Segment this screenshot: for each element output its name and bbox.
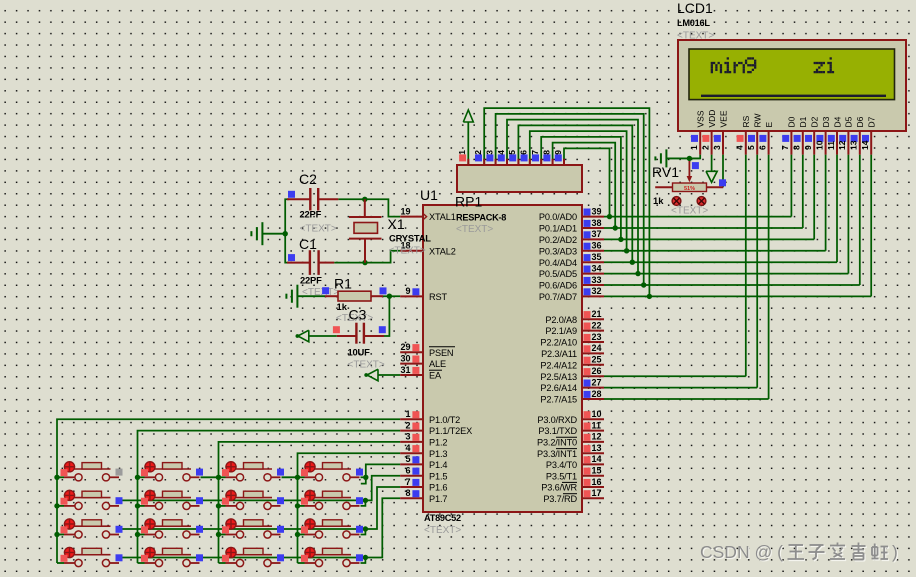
svg-text:EA: EA bbox=[429, 371, 442, 381]
node junction P0.5 bus bbox=[635, 271, 640, 276]
pin 10 LCD1 D3 bbox=[814, 116, 831, 154]
pin 17 U1 right bbox=[582, 497, 604, 499]
pin 6 RP1 bbox=[529, 159, 531, 166]
wire C3 left to power arrow bbox=[309, 335, 337, 337]
svg-text:P1.4: P1.4 bbox=[429, 460, 447, 470]
svg-text:LCD1: LCD1 bbox=[677, 0, 713, 16]
svg-text:XTAL2: XTAL2 bbox=[429, 246, 456, 256]
svg-text:VSS: VSS bbox=[696, 110, 706, 127]
node junction RV1 wiper / VSS net bbox=[687, 156, 692, 161]
svg-text:AT89C52: AT89C52 bbox=[424, 513, 461, 523]
pin 15 U1 right bbox=[582, 475, 604, 477]
pin 3 LCD1 VEE bbox=[712, 110, 729, 154]
svg-text:11: 11 bbox=[592, 420, 602, 430]
svg-text:P3.5/T1: P3.5/T1 bbox=[546, 471, 577, 481]
button keypad row1 col2 bbox=[138, 461, 204, 481]
pin 12 LCD1 D5 bbox=[837, 116, 854, 154]
svg-text:22: 22 bbox=[592, 320, 602, 330]
node keypad junction bbox=[295, 503, 300, 508]
svg-text:31: 31 bbox=[400, 365, 410, 375]
button keypad row3 col1 bbox=[57, 518, 123, 538]
node keypad junction bbox=[216, 532, 221, 537]
svg-text:<TEXT>: <TEXT> bbox=[389, 246, 426, 257]
wire keypad row 3 bus bbox=[117, 528, 365, 530]
svg-text:36: 36 bbox=[592, 241, 602, 251]
pin 4 U1 left bbox=[400, 452, 423, 454]
button keypad row1 col4 bbox=[298, 461, 364, 481]
pin 2 LCD1 VDD bbox=[700, 110, 717, 155]
wire P0.5 to LCD D5 bbox=[604, 273, 848, 275]
wire P0.6 to LCD D6 bbox=[604, 284, 860, 286]
pin 34 U1 right bbox=[582, 273, 604, 275]
node junction crystal bottom / C1 bbox=[362, 260, 367, 265]
pin 10 U1 right bbox=[582, 418, 604, 420]
svg-text:4: 4 bbox=[405, 443, 410, 453]
wire keypad row1 col3 to col4 bbox=[282, 476, 298, 478]
node junction P0.2 bus bbox=[618, 237, 623, 242]
button keypad row3 col3 bbox=[219, 518, 285, 538]
svg-text:<TEXT>: <TEXT> bbox=[671, 206, 708, 217]
wire RP1 pin 6 to P0.3 bbox=[530, 131, 627, 251]
node keypad junction bbox=[216, 475, 221, 480]
pin 14 LCD1 D7 bbox=[860, 116, 877, 154]
lcd LCD1 screen bbox=[689, 49, 895, 100]
pin 14 U1 right bbox=[582, 463, 604, 465]
svg-text:1: 1 bbox=[689, 145, 699, 150]
wire RP1 pin 8 to P0.1 bbox=[553, 143, 616, 228]
svg-text:P0.2/AD2: P0.2/AD2 bbox=[539, 235, 577, 245]
svg-text:LM016L: LM016L bbox=[677, 18, 710, 28]
wire P0.0 to LCD D0 bbox=[604, 216, 791, 218]
svg-text:4: 4 bbox=[735, 145, 745, 150]
power arrow EA bbox=[367, 369, 378, 381]
wire P1.3 to keypad column 4 bbox=[298, 453, 401, 563]
svg-text:12: 12 bbox=[592, 432, 602, 442]
wire P0.7 to LCD D7 bbox=[604, 295, 871, 297]
wire RP1 pin1 to power arrow bbox=[467, 122, 469, 165]
svg-text:8: 8 bbox=[541, 150, 551, 155]
svg-text:P2.2/A10: P2.2/A10 bbox=[540, 338, 577, 348]
svg-text:2: 2 bbox=[473, 150, 483, 155]
svg-text:VDD: VDD bbox=[707, 110, 717, 128]
power arrow RP1 VCC bbox=[463, 110, 473, 122]
pin 8 RP1 bbox=[552, 159, 554, 166]
node keypad junction bbox=[295, 532, 300, 537]
pin 4 RP1 bbox=[506, 159, 508, 166]
wire LCD VEE to RV1 bbox=[722, 155, 724, 188]
svg-text:ALE: ALE bbox=[429, 359, 446, 369]
svg-text:10: 10 bbox=[814, 140, 824, 150]
button keypad row4 col4 bbox=[298, 547, 364, 567]
svg-text:P2.5/A13: P2.5/A13 bbox=[540, 372, 577, 382]
svg-text:R1: R1 bbox=[334, 276, 352, 292]
wire P0.4 to LCD D4 bbox=[604, 261, 837, 263]
svg-text:34: 34 bbox=[592, 263, 602, 273]
svg-text:1: 1 bbox=[457, 150, 467, 155]
pin 5 RP1 bbox=[517, 159, 519, 166]
lcd LCD1 labels bbox=[677, 0, 714, 42]
svg-text:D4: D4 bbox=[832, 116, 842, 127]
svg-text:23: 23 bbox=[592, 332, 602, 342]
button keypad row4 col3 bbox=[219, 547, 285, 567]
svg-text:1k: 1k bbox=[653, 195, 664, 206]
svg-text:RW: RW bbox=[753, 113, 763, 127]
wire P2.5 to LCD RS bbox=[604, 375, 746, 377]
wire LCD VSS to ground bbox=[666, 155, 700, 159]
wire EA to power arrow bbox=[378, 374, 401, 376]
button keypad row2 col2 bbox=[138, 490, 204, 510]
svg-text:P0.4/AD4: P0.4/AD4 bbox=[539, 258, 577, 268]
button keypad row1 col3 bbox=[219, 461, 285, 481]
svg-text:30: 30 bbox=[400, 353, 410, 363]
svg-text:D3: D3 bbox=[821, 116, 831, 127]
svg-text:E: E bbox=[764, 122, 774, 128]
svg-text:P0.3/AD3: P0.3/AD3 bbox=[539, 246, 577, 256]
svg-text:24: 24 bbox=[592, 343, 602, 353]
node keypad junction bbox=[135, 475, 140, 480]
svg-text:CRYSTAL: CRYSTAL bbox=[389, 233, 431, 244]
svg-text:P1.0/T2: P1.0/T2 bbox=[429, 415, 460, 425]
mcu U1 pin labels left bbox=[429, 212, 472, 504]
svg-text:P1.5: P1.5 bbox=[429, 471, 447, 481]
svg-text:3: 3 bbox=[712, 145, 722, 150]
pin 16 U1 right bbox=[582, 486, 604, 488]
svg-text:2: 2 bbox=[405, 420, 410, 430]
svg-text:VEE: VEE bbox=[718, 110, 728, 127]
svg-text:27: 27 bbox=[592, 377, 602, 387]
svg-text:D1: D1 bbox=[798, 116, 808, 127]
svg-text:RP1: RP1 bbox=[455, 194, 482, 210]
button keypad row2 col3 bbox=[219, 490, 285, 510]
svg-text:RST: RST bbox=[429, 292, 447, 302]
wire P1.4 to keypad row 1 bbox=[366, 464, 400, 477]
node keypad junction bbox=[54, 532, 59, 537]
unrouted marker RV1 pin1 bbox=[672, 197, 681, 206]
node junction crystal top / C2 bbox=[362, 197, 367, 202]
wire keypad row 2 bus bbox=[117, 499, 365, 501]
wire keypad row 4 bus bbox=[117, 557, 365, 559]
svg-text:P0.6/AD6: P0.6/AD6 bbox=[539, 281, 577, 291]
svg-text:9: 9 bbox=[553, 150, 563, 155]
svg-text:11: 11 bbox=[826, 141, 836, 150]
svg-text:P1.3: P1.3 bbox=[429, 449, 447, 459]
potentiometer RV1 bbox=[652, 161, 726, 217]
svg-text:<TEXT>: <TEXT> bbox=[300, 224, 337, 235]
pin 24 U1 right bbox=[582, 352, 604, 354]
svg-text:P0.5/AD5: P0.5/AD5 bbox=[539, 269, 577, 279]
node keypad junction bbox=[216, 503, 221, 508]
svg-text:1k: 1k bbox=[337, 301, 348, 312]
pin 2 U1 left bbox=[400, 430, 423, 432]
svg-text:P2.7/A15: P2.7/A15 bbox=[540, 395, 577, 405]
pin 7 U1 left bbox=[400, 486, 423, 488]
button keypad row4 col1 bbox=[57, 547, 123, 567]
pin 11 U1 right bbox=[582, 430, 604, 432]
power arrow C3 left bbox=[298, 330, 309, 342]
pin 1 LCD1 VSS bbox=[689, 110, 706, 154]
svg-text:C2: C2 bbox=[299, 171, 317, 187]
svg-text:<TEXT>: <TEXT> bbox=[348, 360, 385, 371]
pin 9 U1 left bbox=[400, 295, 423, 297]
pin 33 U1 right bbox=[582, 284, 604, 286]
mcu U1 pin labels right bbox=[537, 212, 578, 504]
svg-text:37: 37 bbox=[592, 229, 602, 239]
wire P2.6 to LCD RW bbox=[604, 387, 757, 389]
capacitor C3 bbox=[333, 307, 386, 371]
pin 6 LCD1 E bbox=[757, 122, 774, 155]
svg-text:P3.3/INT1: P3.3/INT1 bbox=[537, 449, 577, 459]
wire RP1 pin 2 to P0.7 bbox=[484, 108, 649, 296]
wire LCD VDD to power bbox=[711, 155, 713, 172]
svg-text:): ) bbox=[892, 542, 898, 562]
pin 32 U1 right bbox=[582, 295, 604, 297]
pin 37 U1 right bbox=[582, 238, 604, 240]
svg-text:P2.3/A11: P2.3/A11 bbox=[541, 349, 577, 359]
svg-text:P2.6/A14: P2.6/A14 bbox=[540, 383, 577, 393]
wire RV1 wiper stub bbox=[688, 158, 690, 162]
node junction P0.3 bus bbox=[624, 248, 629, 253]
svg-text:P3.7/RD: P3.7/RD bbox=[543, 494, 577, 504]
svg-text:13: 13 bbox=[849, 140, 859, 150]
svg-text:14: 14 bbox=[592, 454, 602, 464]
node keypad junction bbox=[54, 503, 59, 508]
pin 9 RP1 bbox=[563, 159, 565, 166]
svg-text:6: 6 bbox=[405, 466, 410, 476]
pin 35 U1 right bbox=[582, 261, 604, 263]
wire P0.1 to LCD D1 bbox=[604, 227, 803, 229]
svg-text:P3.6/WR: P3.6/WR bbox=[541, 483, 577, 493]
svg-text:6: 6 bbox=[519, 150, 529, 155]
svg-text:P0.1/AD1: P0.1/AD1 bbox=[539, 224, 577, 234]
pin 13 U1 right bbox=[582, 452, 604, 454]
svg-text:10UF: 10UF bbox=[348, 347, 371, 358]
wire RP1 pin 3 to P0.6 bbox=[496, 114, 644, 285]
pin 39 U1 right bbox=[582, 216, 604, 218]
svg-text:29: 29 bbox=[400, 342, 410, 352]
pin 1 RP1 bbox=[467, 159, 469, 166]
pin 18 U1 left bbox=[400, 250, 423, 252]
svg-text:13: 13 bbox=[592, 443, 602, 453]
lcd screen cursor line bbox=[701, 95, 886, 97]
svg-text:21: 21 bbox=[592, 309, 602, 319]
pin 12 U1 right bbox=[582, 441, 604, 443]
button keypad row4 col2 bbox=[138, 547, 204, 567]
pin 11 LCD1 D4 bbox=[826, 116, 843, 154]
button keypad row3 col4 bbox=[298, 518, 364, 538]
svg-text:2: 2 bbox=[700, 145, 710, 150]
pin 31 U1 left bbox=[400, 374, 423, 376]
pin 2 RP1 bbox=[483, 159, 485, 166]
node keypad junction bbox=[295, 475, 300, 480]
svg-text:7: 7 bbox=[780, 145, 790, 150]
svg-text:C3: C3 bbox=[349, 307, 367, 323]
svg-text:<TEXT>: <TEXT> bbox=[456, 224, 493, 235]
watermark CSDN bbox=[700, 542, 899, 563]
svg-text:3: 3 bbox=[405, 432, 410, 442]
svg-text:D6: D6 bbox=[855, 116, 865, 127]
wire P1.7 to keypad row 4 bbox=[365, 498, 400, 557]
pin 29 U1 left bbox=[400, 351, 423, 353]
svg-text:PSEN: PSEN bbox=[429, 348, 453, 358]
capacitor C2 bbox=[287, 171, 338, 235]
wire P0.2 to LCD D2 bbox=[604, 238, 814, 240]
button keypad row1 col1 bbox=[57, 461, 123, 481]
svg-text:33: 33 bbox=[592, 275, 602, 285]
pin 3 RP1 bbox=[495, 159, 497, 166]
pin 22 U1 right bbox=[582, 330, 604, 332]
pin 30 U1 left bbox=[400, 363, 423, 365]
wire C3 to RST net vertical bbox=[384, 296, 389, 336]
svg-text:5: 5 bbox=[405, 454, 410, 464]
wire P1.2 to keypad column 3 bbox=[219, 442, 401, 563]
button keypad row2 col4 bbox=[298, 490, 364, 510]
button keypad row3 col2 bbox=[138, 518, 204, 538]
pin 8 LCD1 D1 bbox=[792, 116, 809, 154]
ground GND1 bbox=[262, 233, 285, 235]
svg-text:X1: X1 bbox=[388, 216, 405, 232]
pin 28 U1 right bbox=[582, 398, 604, 400]
svg-text:XTAL1: XTAL1 bbox=[429, 212, 456, 222]
svg-text:1: 1 bbox=[405, 409, 410, 419]
pin 1 U1 left bbox=[400, 418, 423, 420]
svg-text:P1.1/T2EX: P1.1/T2EX bbox=[429, 426, 472, 436]
svg-text:P1.2: P1.2 bbox=[429, 438, 447, 448]
svg-text:17: 17 bbox=[592, 488, 602, 498]
svg-text:15: 15 bbox=[592, 466, 602, 476]
svg-text:P3.4/T0: P3.4/T0 bbox=[546, 460, 577, 470]
svg-text:25: 25 bbox=[592, 355, 602, 365]
wire RP1 pin 5 to P0.4 bbox=[518, 125, 632, 262]
svg-text:P1.6: P1.6 bbox=[429, 483, 447, 493]
button keypad row2 col1 bbox=[57, 490, 123, 510]
pin 19 U1 left bbox=[400, 216, 423, 218]
svg-text:P3.0/RXD: P3.0/RXD bbox=[537, 415, 577, 425]
resistor R1 bbox=[322, 276, 386, 325]
svg-text:10: 10 bbox=[592, 409, 602, 419]
svg-text:5: 5 bbox=[507, 150, 517, 155]
node junction P0.7 bus bbox=[647, 294, 652, 299]
node keypad junction bbox=[135, 503, 140, 508]
svg-text:7: 7 bbox=[530, 150, 540, 155]
pin 36 U1 right bbox=[582, 250, 604, 252]
wire RP1 pin 9 to P0.0 bbox=[564, 148, 610, 216]
capacitor C1 bbox=[287, 236, 339, 298]
svg-text:P2.1/A9: P2.1/A9 bbox=[545, 326, 577, 336]
svg-text:D0: D0 bbox=[787, 116, 797, 127]
svg-text:39: 39 bbox=[592, 206, 602, 216]
pin 21 U1 right bbox=[582, 318, 604, 320]
pin 26 U1 right bbox=[582, 375, 604, 377]
pin 27 U1 right bbox=[582, 387, 604, 389]
svg-text:<TEXT>: <TEXT> bbox=[424, 525, 461, 536]
svg-text:12: 12 bbox=[837, 140, 847, 150]
svg-text:RS: RS bbox=[741, 115, 751, 127]
pin 8 U1 left bbox=[400, 497, 423, 499]
svg-text:C1: C1 bbox=[299, 236, 317, 252]
lcd screen text min9 zi bbox=[711, 57, 834, 73]
pin 4 LCD1 RS bbox=[735, 115, 752, 154]
pin 3 U1 left bbox=[400, 441, 423, 443]
power down-arrow VDD bbox=[706, 171, 717, 182]
svg-text:38: 38 bbox=[592, 218, 602, 228]
node junction P0.1 bus bbox=[613, 225, 618, 230]
lcd LCD1 body bbox=[678, 40, 906, 131]
resistor-pack RP1 body bbox=[457, 165, 582, 192]
ground GND2 at R1 bbox=[297, 295, 325, 297]
svg-text:22PF: 22PF bbox=[300, 275, 322, 286]
pin 23 U1 right bbox=[582, 341, 604, 343]
wire keypad row1 col2 to col3 bbox=[201, 476, 219, 478]
wire C2-left to C1-left vertical (ground net) bbox=[285, 199, 289, 262]
node keypad junction bbox=[135, 532, 140, 537]
svg-text:16: 16 bbox=[592, 477, 602, 487]
svg-text:U1: U1 bbox=[420, 187, 438, 203]
pin 9 LCD1 D2 bbox=[803, 116, 820, 154]
svg-text:RESPACK-8: RESPACK-8 bbox=[456, 213, 506, 223]
svg-text:P3.2/INT0: P3.2/INT0 bbox=[537, 438, 577, 448]
node keypad junction bbox=[54, 475, 59, 480]
svg-text:3: 3 bbox=[484, 150, 494, 155]
svg-text:4: 4 bbox=[496, 150, 506, 155]
svg-text:5: 5 bbox=[746, 145, 756, 150]
pin 7 LCD1 D0 bbox=[780, 116, 797, 154]
svg-text:7: 7 bbox=[405, 477, 410, 487]
crystal X1 bbox=[349, 199, 431, 262]
svg-text:D7: D7 bbox=[867, 116, 877, 127]
svg-text:RV1: RV1 bbox=[652, 164, 679, 180]
wire P1.0 to keypad column 1 bbox=[57, 419, 400, 563]
clock chevron XTAL1 bbox=[423, 214, 426, 220]
svg-text:9: 9 bbox=[405, 286, 410, 296]
wire RP1 pin 7 to P0.2 bbox=[541, 137, 621, 240]
ground GND3 at LCD/RV1 bbox=[666, 157, 700, 159]
wire P1.1 to keypad column 2 bbox=[138, 431, 401, 563]
node junction C2/C1 ground net bbox=[283, 231, 288, 236]
pin 7 RP1 bbox=[540, 159, 542, 166]
svg-text:22PF: 22PF bbox=[300, 209, 322, 220]
node junction P0.4 bus bbox=[630, 260, 635, 265]
pin 25 U1 right bbox=[582, 364, 604, 366]
svg-text:35: 35 bbox=[592, 252, 602, 262]
pin 6 U1 left bbox=[400, 475, 423, 477]
svg-text:28: 28 bbox=[592, 389, 602, 399]
wire P2.7 to LCD E bbox=[604, 398, 769, 400]
svg-text:CSDN @ (: CSDN @ ( bbox=[700, 542, 783, 562]
wire R1 right to RST bbox=[383, 295, 400, 297]
pin 13 LCD1 D6 bbox=[849, 116, 866, 154]
svg-text:8: 8 bbox=[405, 488, 410, 498]
wire P1.6 to keypad row 3 bbox=[365, 487, 400, 529]
node junction P0.6 bus bbox=[641, 282, 646, 287]
mcu U1 AT89C52 body bbox=[423, 205, 582, 512]
svg-text:D5: D5 bbox=[844, 116, 854, 127]
svg-text:8: 8 bbox=[792, 145, 802, 150]
svg-text:P0.7/AD7: P0.7/AD7 bbox=[539, 292, 577, 302]
svg-text:32: 32 bbox=[592, 286, 602, 296]
pin 5 U1 left bbox=[400, 463, 423, 465]
svg-text:51%: 51% bbox=[684, 186, 695, 192]
svg-text:14: 14 bbox=[860, 140, 870, 150]
pin 5 LCD1 RW bbox=[746, 113, 763, 154]
svg-text:P2.0/A8: P2.0/A8 bbox=[545, 315, 577, 325]
svg-text:P1.7: P1.7 bbox=[429, 494, 447, 504]
node junction RST / R1 / C3 bbox=[387, 294, 392, 299]
svg-text:P2.4/A12: P2.4/A12 bbox=[540, 360, 577, 370]
svg-text:26: 26 bbox=[592, 366, 602, 376]
svg-text:P0.0/AD0: P0.0/AD0 bbox=[539, 212, 577, 222]
svg-text:9: 9 bbox=[803, 145, 813, 150]
unrouted marker RV1 pin3 bbox=[697, 197, 706, 206]
